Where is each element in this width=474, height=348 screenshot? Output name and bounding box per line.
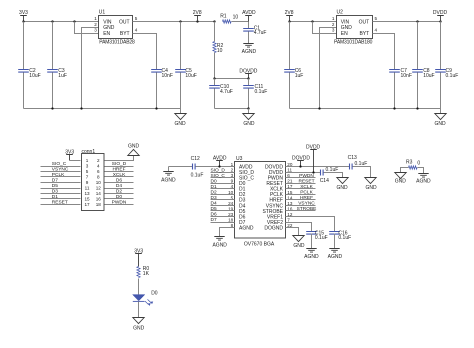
svg-text:D6: D6 (211, 212, 217, 218)
svg-text:GND: GND (243, 121, 255, 127)
wire U2 GND pin to bottom rail (320, 28, 337, 109)
power flag 3V3 (LED) (134, 248, 143, 266)
net label RESET (conn pin 17) (41, 200, 81, 206)
svg-text:4.7uF: 4.7uF (220, 89, 233, 95)
wire U2 BYT to C7 (373, 34, 395, 70)
svg-text:9: 9 (231, 179, 234, 184)
junction (73, 20, 75, 22)
svg-text:11: 11 (287, 168, 292, 173)
svg-text:10uF: 10uF (29, 73, 40, 79)
svg-text:RESET: RESET (299, 178, 315, 184)
svg-text:U2: U2 (337, 10, 344, 16)
svg-text:0.1uF: 0.1uF (255, 89, 268, 95)
junction (312, 171, 314, 173)
svg-text:15: 15 (84, 197, 90, 202)
junction (318, 107, 320, 109)
wire C14 to ground (324, 173, 343, 178)
junction (299, 165, 301, 167)
wire U3 VREF2 to C15 (286, 223, 312, 232)
ground GND (after C13) (365, 178, 377, 191)
capacitor C8 (412, 22, 434, 109)
svg-text:1: 1 (94, 16, 97, 21)
ground GND (under C11) (243, 109, 255, 127)
ground GND (R3 left) (395, 173, 407, 185)
junction (213, 77, 215, 79)
svg-text:BYT: BYT (359, 31, 369, 37)
svg-text:OV7670 BGA: OV7670 BGA (244, 242, 275, 248)
net label D0 (conn pin 16) (105, 194, 134, 200)
wire U2 EN loop (313, 22, 337, 34)
ground GND (section A) (174, 109, 186, 127)
net label D1 (conn pin 15) (41, 194, 81, 200)
wire U1 BYT to C4 (133, 34, 157, 70)
svg-text:1uF: 1uF (295, 73, 304, 79)
power flag AVDD (U3 pin1) (213, 155, 227, 166)
junction (416, 107, 418, 109)
svg-text:GND: GND (133, 325, 145, 331)
svg-text:18: 18 (228, 218, 234, 223)
capacitor C3 (47, 22, 67, 109)
svg-text:EN: EN (341, 31, 348, 37)
ground AGND (left of C12) (161, 167, 192, 184)
svg-text:AGND: AGND (242, 49, 257, 55)
junction (393, 107, 395, 109)
net label PWDN (conn pin 18) (105, 200, 134, 206)
capacitor C1 (243, 22, 266, 44)
ground GND (LED) (133, 318, 145, 332)
svg-text:D3: D3 (52, 189, 58, 195)
svg-text:10: 10 (217, 48, 223, 54)
capacitor C10 (209, 79, 233, 109)
svg-text:PWDN: PWDN (112, 200, 127, 206)
svg-text:conn1: conn1 (82, 149, 96, 155)
power flag DVDD (U2 output) (433, 10, 448, 22)
svg-text:XCLK: XCLK (300, 184, 313, 190)
resistor R2 10 (213, 22, 224, 79)
net label STROBE (U3) (286, 206, 317, 212)
net label D2 (U3) (211, 189, 235, 195)
svg-text:0.1uF: 0.1uF (191, 173, 204, 179)
svg-text:U3: U3 (236, 156, 243, 162)
svg-text:D0: D0 (211, 178, 217, 184)
svg-text:16: 16 (96, 197, 102, 202)
svg-text:2: 2 (231, 168, 234, 173)
svg-text:U1: U1 (99, 10, 106, 16)
junction (196, 20, 198, 22)
svg-text:3: 3 (86, 164, 89, 169)
svg-text:AGND: AGND (304, 254, 319, 260)
capacitor C2 (18, 22, 41, 109)
svg-text:OUT: OUT (359, 19, 370, 25)
svg-text:VSYNC: VSYNC (52, 167, 69, 173)
svg-text:D0: D0 (151, 290, 158, 296)
svg-text:10: 10 (233, 14, 239, 20)
svg-text:5: 5 (135, 16, 138, 21)
net label D5 (U3) (211, 206, 235, 212)
net label VSYNC (U3) (286, 201, 316, 207)
net label RESET (U3) (286, 178, 316, 184)
capacitor C13 (348, 155, 368, 169)
svg-text:PAM3101DAB28: PAM3101DAB28 (99, 40, 135, 46)
svg-text:AGND: AGND (212, 242, 227, 248)
svg-text:D4: D4 (211, 201, 217, 207)
net label PCLK (U3) (286, 189, 316, 195)
ground GND (after C14) (336, 178, 348, 191)
power flag AVDD (242, 10, 256, 21)
svg-text:5: 5 (375, 16, 378, 21)
svg-text:AGND: AGND (416, 178, 431, 184)
wire U1 EN loop (75, 22, 99, 34)
svg-text:10nF: 10nF (401, 73, 412, 79)
junction (311, 20, 313, 22)
svg-text:7: 7 (86, 175, 89, 180)
svg-text:1K: 1K (143, 271, 150, 277)
net label HREF (conn pin 6) (105, 167, 134, 173)
net label HREF (U3) (286, 195, 316, 201)
svg-text:11: 11 (85, 186, 90, 191)
wire U3 VREF1 to C16 (286, 217, 335, 232)
IC U3 OV7670 BGA (228, 156, 293, 247)
power flag 3V3 (19, 10, 28, 22)
svg-text:AGND: AGND (161, 178, 176, 184)
wire R1 to AVDD (232, 21, 249, 23)
junction (247, 77, 249, 79)
wire C10/C11 ground link (215, 108, 249, 110)
net label XCLK (U3) (286, 184, 316, 190)
svg-text:1: 1 (332, 16, 335, 21)
net label SIO_C (U3) (211, 173, 235, 179)
svg-text:AGND: AGND (239, 225, 254, 231)
svg-text:2V8: 2V8 (285, 10, 294, 16)
svg-text:D1: D1 (211, 184, 217, 190)
svg-text:10uF: 10uF (185, 73, 196, 79)
svg-text:3: 3 (94, 28, 97, 33)
svg-text:18: 18 (96, 202, 102, 207)
svg-text:D2: D2 (116, 189, 122, 195)
ground AGND (under C15) (304, 249, 319, 261)
connector conn1 (82, 149, 105, 211)
net label D1 (U3) (211, 184, 235, 190)
svg-text:DOGND: DOGND (264, 225, 283, 231)
net label D3 (U3) (211, 195, 235, 201)
net label D4 (conn pin 12) (105, 183, 134, 189)
wire U3 DVDD row to C14 (286, 172, 321, 174)
net label D2 (conn pin 14) (105, 189, 134, 195)
svg-text:GND: GND (365, 185, 377, 191)
svg-text:14: 14 (96, 191, 102, 196)
svg-text:GND: GND (336, 185, 348, 191)
net label SIO_D (conn pin 4) (105, 161, 134, 167)
svg-text:10: 10 (96, 180, 102, 185)
net label D7 (U3) (211, 217, 235, 223)
svg-text:D7: D7 (52, 178, 58, 184)
svg-text:R1: R1 (220, 14, 227, 20)
net label PCLK (conn pin 7) (41, 172, 81, 178)
wire bottom rail C (290, 108, 441, 110)
svg-text:C14: C14 (320, 178, 329, 184)
junction (218, 165, 220, 167)
junction (51, 20, 53, 22)
svg-text:DVDD: DVDD (433, 10, 448, 16)
capacitor C15 (306, 230, 327, 248)
svg-text:4: 4 (135, 28, 138, 33)
capacitor C7 (389, 68, 412, 109)
capacitor C4 (151, 68, 173, 109)
svg-text:9: 9 (86, 180, 89, 185)
net label D3 (conn pin 13) (41, 189, 81, 195)
capacitor C6 (284, 22, 303, 109)
svg-text:SIO_D: SIO_D (211, 167, 226, 173)
junction (51, 107, 53, 109)
wire DOVDD node rail (215, 78, 249, 80)
capacitor C5 (175, 22, 197, 109)
net label SIO_C (conn pin 3) (41, 161, 81, 167)
junction (416, 20, 418, 22)
wire bottom rail A (24, 108, 181, 110)
wire top rail 3V3 to U1 pin1 (24, 21, 99, 23)
ground GND (connector pin2) (105, 144, 140, 161)
svg-text:GND: GND (395, 178, 407, 184)
svg-text:2: 2 (97, 158, 100, 163)
svg-text:SIO_D: SIO_D (112, 161, 127, 167)
svg-text:BYT: BYT (120, 31, 130, 37)
junction (247, 107, 249, 109)
junction (213, 20, 215, 22)
svg-text:3: 3 (332, 28, 335, 33)
power flag DVDD (U3 pin11) (306, 144, 321, 172)
junction (80, 107, 82, 109)
resistor R0 1K (137, 266, 150, 294)
svg-text:RESET: RESET (52, 200, 68, 206)
svg-text:5: 5 (86, 169, 89, 174)
svg-text:2V8: 2V8 (193, 10, 202, 16)
svg-text:2: 2 (332, 22, 335, 27)
wire U3 DOVDD row to C13 (286, 166, 350, 168)
power flag 3V3 (connector pin1) (65, 149, 80, 160)
svg-text:PCLK: PCLK (52, 172, 65, 178)
svg-text:17: 17 (84, 202, 90, 207)
net label XCLK (conn pin 8) (105, 172, 134, 178)
svg-text:HREF: HREF (300, 195, 313, 201)
net label D7 (conn pin 9) (41, 178, 81, 184)
junction (155, 107, 157, 109)
ground AGND (under C1) (242, 44, 257, 56)
capacitor C16 (329, 230, 351, 248)
wire R3 right to AGND (418, 168, 424, 174)
svg-text:10uF: 10uF (423, 73, 434, 79)
svg-text:10nF: 10nF (162, 73, 173, 79)
svg-text:R3: R3 (406, 160, 413, 166)
ground AGND (U3 pin8) (212, 228, 234, 249)
junction (179, 20, 181, 22)
junction (288, 20, 290, 22)
svg-text:PWDN: PWDN (299, 173, 314, 179)
ground AGND (R3 right) (416, 174, 431, 185)
svg-text:VSYNC: VSYNC (298, 201, 315, 207)
IC U2 PAM3101DAB180 (332, 10, 378, 46)
power flag 2V8 (U1 output) (193, 10, 202, 22)
svg-text:OUT: OUT (119, 19, 130, 25)
svg-text:4.7uF: 4.7uF (254, 30, 267, 36)
svg-text:HREF: HREF (112, 167, 125, 173)
svg-text:PAM3101DAB180: PAM3101DAB180 (334, 40, 373, 46)
svg-text:0.1uF: 0.1uF (446, 73, 459, 79)
svg-text:SIO_C: SIO_C (52, 161, 67, 167)
svg-text:D5: D5 (52, 183, 58, 189)
svg-text:D0: D0 (116, 194, 122, 200)
svg-text:21: 21 (287, 179, 293, 184)
net label D6 (U3) (211, 212, 235, 218)
svg-text:7: 7 (287, 218, 290, 223)
svg-text:D1: D1 (52, 194, 58, 200)
svg-text:2: 2 (94, 22, 97, 27)
net label D4 (U3) (211, 201, 235, 207)
resistor R1 10 (220, 14, 238, 24)
svg-text:GND: GND (434, 121, 446, 127)
svg-text:GND: GND (293, 243, 305, 249)
svg-text:C12: C12 (191, 156, 200, 162)
net label D5 (conn pin 11) (41, 183, 81, 189)
wire R3 left to GND (401, 168, 409, 173)
svg-text:D4: D4 (116, 183, 122, 189)
svg-text:XCLK: XCLK (113, 172, 126, 178)
ground GND (section C) (434, 109, 446, 127)
svg-text:PCLK: PCLK (300, 189, 313, 195)
junction (22, 20, 24, 22)
capacitor C11 (243, 79, 267, 109)
capacitor C14 (320, 167, 339, 184)
IC U1 PAM3101DAB28 (94, 10, 138, 46)
net label D6 (conn pin 10) (105, 178, 134, 184)
svg-text:D6: D6 (116, 178, 122, 184)
svg-text:D3: D3 (211, 195, 217, 201)
wire LED to GND (138, 302, 140, 318)
net label SIO_D (U3) (211, 167, 235, 173)
svg-text:GND: GND (174, 121, 186, 127)
wire U2 OUT to DVDD (373, 21, 441, 23)
svg-text:SIO_C: SIO_C (211, 173, 226, 179)
wire U1 GND pin to bottom rail (82, 28, 99, 109)
ground AGND (under C16) (328, 249, 343, 261)
svg-text:GND: GND (128, 144, 140, 150)
wire C13 to ground (353, 167, 371, 178)
svg-text:0: 0 (417, 160, 420, 166)
svg-text:4: 4 (375, 28, 378, 33)
svg-text:D5: D5 (211, 206, 217, 212)
svg-text:1uF: 1uF (58, 73, 67, 79)
capacitor C12 (191, 156, 235, 178)
svg-text:STROBE: STROBE (297, 206, 317, 212)
svg-text:8: 8 (97, 175, 100, 180)
svg-text:12: 12 (96, 186, 102, 191)
wire U1 OUT to 2V8/R1 node (133, 21, 215, 23)
svg-text:1: 1 (86, 158, 89, 163)
svg-text:0.1uF: 0.1uF (338, 235, 351, 241)
svg-text:D7: D7 (211, 217, 217, 223)
svg-text:6: 6 (97, 169, 100, 174)
LED D0 (133, 290, 158, 306)
resistor R3 0 (406, 160, 420, 169)
svg-text:EN: EN (103, 31, 110, 37)
svg-text:AGND: AGND (328, 254, 343, 260)
junction (439, 20, 441, 22)
net label PWDN (U3) (286, 173, 316, 179)
svg-text:13: 13 (84, 191, 90, 196)
svg-text:4: 4 (97, 164, 100, 169)
wire top rail 2V8 to U2 pin1 (290, 21, 337, 23)
net label D0 (U3) (211, 178, 235, 184)
power flag DOVDD (U3 pin20) (292, 155, 310, 166)
ground GND (U3 DOGND pin22) (286, 228, 305, 249)
svg-text:0.1uF: 0.1uF (315, 235, 328, 241)
power flag 2V8 (U2 input) (285, 10, 294, 22)
capacitor C9 (435, 22, 458, 109)
net label VSYNC (conn pin 5) (41, 167, 81, 173)
power flag DOVDD (239, 68, 257, 78)
svg-text:D2: D2 (211, 189, 217, 195)
